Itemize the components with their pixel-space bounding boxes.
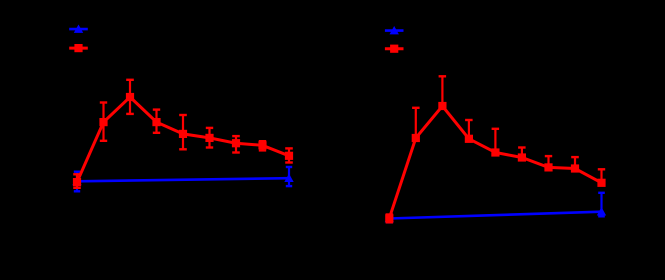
blue series error bar, left panel point 2 xyxy=(286,167,292,186)
red series error bar, left panel point 6 xyxy=(206,128,213,148)
red square marker, right panel point 4 xyxy=(465,135,473,143)
red square marker, right panel point 1 xyxy=(385,214,393,222)
red series error bar, right panel point 6 xyxy=(518,148,526,161)
red series error bar, right panel point 7 xyxy=(545,156,552,170)
blue triangle marker, right panel point 2 xyxy=(597,207,606,215)
red series line, left panel xyxy=(77,97,289,182)
red series error bar, left panel point 4 xyxy=(153,110,160,133)
blue triangle marker, left panel point 2 xyxy=(284,174,293,182)
red square marker, right panel point 7 xyxy=(544,163,552,171)
red square marker, left panel point 2 xyxy=(99,118,107,126)
red square marker, left panel point 5 xyxy=(179,130,187,138)
red series error bar, right panel point 8 xyxy=(571,157,579,171)
red square marker, right panel point 6 xyxy=(518,153,526,161)
red square marker, left panel point 8 xyxy=(258,141,266,149)
legend red sample, right panel xyxy=(385,45,404,53)
red series error bar, left panel point 3 xyxy=(126,80,134,114)
red series error bar, right panel point 5 xyxy=(492,129,500,155)
blue triangle marker, left panel point 1 xyxy=(72,177,81,185)
red square marker, right panel point 9 xyxy=(597,179,605,187)
legend blue sample, left panel xyxy=(69,25,88,33)
blue series error bar, left panel point 1 xyxy=(74,172,80,192)
red square marker, left panel point 7 xyxy=(232,139,240,147)
red series error bar, right panel point 1 xyxy=(386,215,394,223)
blue series error bar, right panel point 2 xyxy=(598,193,605,217)
red square marker, right panel point 3 xyxy=(438,102,446,110)
red series error bar, left panel point 7 xyxy=(232,136,240,152)
blue series error bar, right panel point 1 xyxy=(386,215,393,222)
red square marker, left panel point 6 xyxy=(205,134,213,142)
red square marker, right panel point 8 xyxy=(571,164,579,172)
red square marker, right panel point 5 xyxy=(491,148,499,156)
red square marker, left panel point 9 xyxy=(285,152,293,160)
red series line, right panel xyxy=(389,106,601,218)
red series error bar, left panel point 2 xyxy=(100,103,107,141)
blue triangle marker, right panel point 1 xyxy=(385,214,394,222)
blue series line, left panel xyxy=(77,178,289,181)
red series error bar, left panel point 5 xyxy=(179,115,187,149)
legend blue sample, right panel xyxy=(385,26,404,34)
red series error bar, right panel point 9 xyxy=(598,169,605,185)
red square marker, left panel point 3 xyxy=(126,93,134,101)
red square marker, left panel point 1 xyxy=(73,178,81,186)
red square marker, right panel point 2 xyxy=(412,134,420,142)
red series error bar, right panel point 4 xyxy=(465,120,473,141)
red series error bar, left panel point 1 xyxy=(73,174,81,188)
blue series line, right panel xyxy=(389,212,601,219)
red series error bar, right panel point 3 xyxy=(439,76,447,108)
red series error bar, left panel point 8 xyxy=(259,141,266,150)
legend red sample, left panel xyxy=(69,44,88,52)
red series error bar, right panel point 2 xyxy=(412,108,420,141)
red square marker, left panel point 4 xyxy=(152,118,160,126)
red series error bar, left panel point 9 xyxy=(285,148,293,162)
